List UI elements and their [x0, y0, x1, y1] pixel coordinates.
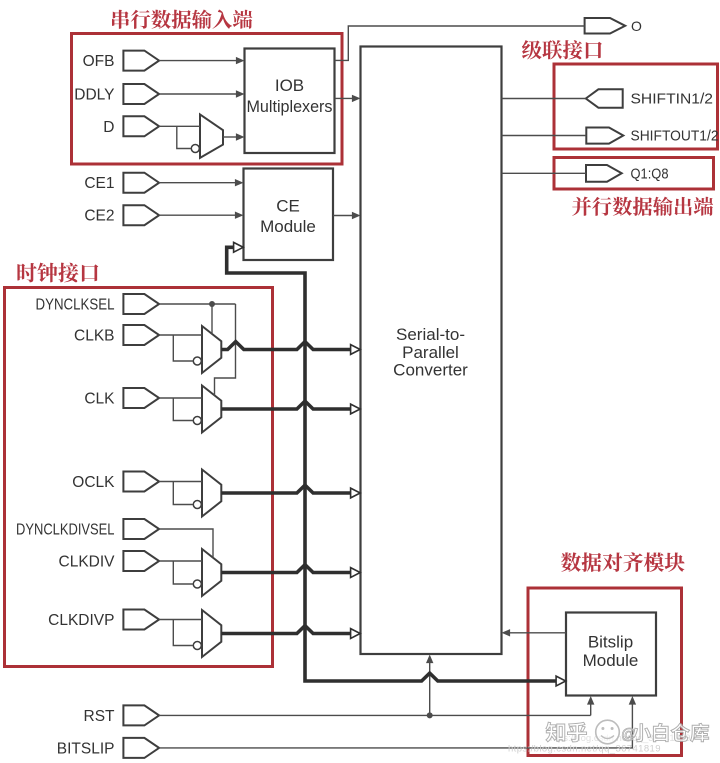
red annotation box: clock interface group [5, 288, 273, 667]
svg-text:OFB: OFB [83, 53, 115, 70]
svg-text:Module: Module [260, 217, 316, 236]
output port SHIFTOUT1/2 [586, 128, 718, 145]
wire DYNCLKSEL to mux M3 select [215, 304, 236, 396]
arrowhead CE output into converter [352, 212, 361, 219]
wire CLKB to mux M2 [159, 334, 202, 336]
arrowhead CE2 into CE Module [235, 212, 244, 219]
wire DDLY to IOB [159, 93, 237, 95]
mux M5 (CLKDIV) [202, 549, 221, 596]
red title: cascade interface [522, 40, 602, 59]
arrowhead trunk into CE Module [234, 242, 244, 252]
arrowhead RST into Bitslip bottom [587, 696, 594, 705]
wire CLKDIV inverted branch [173, 561, 193, 584]
wire CLKDIVP clock net (thick) [221, 626, 351, 634]
svg-text:RST: RST [84, 708, 116, 725]
svg-text:SHIFTIN1/2: SHIFTIN1/2 [631, 92, 714, 108]
inverter bubble on mux M4 (OCLK) [193, 501, 201, 509]
svg-text:CLK: CLK [84, 391, 115, 408]
wire OCLK clock net (thick) [221, 485, 351, 493]
input port BITSLIP [57, 738, 159, 758]
inverter bubble on mux M2 (CLKB) [193, 357, 201, 365]
arrowhead CLKB into converter [351, 345, 361, 355]
arrowhead CLKDIVP into converter [351, 629, 361, 639]
inverter bubble on mux M3 (CLK) [193, 417, 201, 425]
mux M6 (CLKDIVP) [202, 610, 221, 657]
svg-text:Module: Module [583, 651, 639, 670]
wire RST branch up to converter [429, 662, 431, 715]
watermark text zhihu [546, 722, 587, 742]
wire converter to SHIFTIN1/2 [502, 98, 586, 100]
inverter bubble on mux M1 [191, 145, 199, 153]
mux M3 (CLK) [202, 386, 221, 433]
wire CLKB clock net (thick) [221, 342, 351, 350]
svg-text:Bitslip: Bitslip [588, 633, 633, 652]
wire CE1 to CE Module [159, 182, 236, 184]
input port SHIFTIN1/2 (left-pointing) [586, 89, 713, 107]
svg-text:htps:/blog.csdn.net/qq_3674181: htps:/blog.csdn.net/qq_36741819 [508, 744, 661, 755]
block U1 Serial-to-Parallel Converter [361, 47, 502, 655]
arrowhead CLKDIV into converter [351, 568, 361, 578]
input port DYNCLKDIVSEL [16, 519, 159, 539]
arrowhead IOB output into converter [352, 95, 361, 102]
junction dot on DYNCLKSEL net [209, 301, 215, 307]
junction dot on RST net [427, 712, 433, 718]
output port Q1:Q8 [586, 165, 669, 182]
arrowhead BITSLIP into Bitslip bottom [629, 696, 636, 705]
wire DYNCLKSEL select net [159, 303, 236, 305]
svg-text:CLKDIVP: CLKDIVP [48, 612, 114, 629]
red title: data alignment module [561, 552, 685, 572]
wire converter to SHIFTOUT1/2 [502, 135, 587, 137]
mux M4 (OCLK) [202, 470, 221, 517]
wire CLKDIV to mux M5 [159, 560, 202, 562]
wire Bitslip Module to converter [509, 632, 566, 634]
arrowhead OFB into IOB [236, 57, 245, 64]
input port DDLY [74, 84, 159, 104]
block U4 Bitslip Module [566, 613, 656, 696]
input port OCLK [72, 472, 159, 492]
wire CLK to mux M3 [159, 397, 202, 399]
arrowhead trunk into Bitslip Module [556, 676, 566, 686]
input port RST [84, 705, 160, 725]
wire CLKDIVP to mux M6 [159, 619, 202, 621]
red title: clock interface [17, 263, 98, 283]
wire D to mux M1 [159, 125, 200, 127]
svg-text:Multiplexers: Multiplexers [247, 98, 333, 116]
wire RST net [159, 714, 591, 716]
block U3 CE Module [244, 169, 334, 261]
arrowhead CE1 into CE Module [235, 179, 244, 186]
svg-text:DYNCLKDIVSEL: DYNCLKDIVSEL [16, 522, 115, 539]
red annotation box: data alignment group [528, 588, 682, 756]
input port CE2 [84, 205, 159, 225]
input port CLKB [74, 325, 159, 345]
svg-text:CE1: CE1 [84, 175, 114, 192]
red annotation box: serial data input group [72, 34, 343, 165]
input port CLKDIVP [48, 610, 159, 630]
wire BITSLIP net [159, 704, 633, 748]
svg-text:CLKDIV: CLKDIV [59, 554, 116, 571]
inverter bubble on mux M5 (CLKDIV) [193, 580, 201, 588]
svg-text:DYNCLKSEL: DYNCLKSEL [36, 297, 115, 314]
svg-text:Q1:Q8: Q1:Q8 [631, 166, 669, 182]
arrowhead mux M1 into IOB [236, 133, 245, 140]
wire CLKB inverted branch [173, 335, 193, 361]
wire CLK inverted branch [173, 398, 193, 421]
wire OCLK to mux M4 [159, 481, 202, 483]
svg-text:SHIFTOUT1/2: SHIFTOUT1/2 [631, 129, 719, 145]
wire DYNCLKDIVSEL to mux M5 select [159, 529, 213, 558]
svg-text:Serial-to-: Serial-to- [396, 325, 465, 344]
watermark avatar logo [596, 720, 620, 744]
watermark text account name [632, 723, 709, 741]
wire CE Module output to converter [333, 215, 353, 217]
svg-text:OCLK: OCLK [72, 474, 115, 491]
mux M1 (D input) [200, 114, 223, 157]
wire CLKDIVP inverted branch [173, 620, 193, 646]
wire CE2 to CE Module [159, 214, 236, 216]
red title: parallel data output port [572, 197, 713, 216]
input port OFB [83, 51, 159, 71]
svg-text:Converter: Converter [393, 361, 468, 380]
svg-text:Parallel: Parallel [402, 343, 459, 362]
arrowhead Bitslip into converter [502, 629, 511, 636]
arrowhead OCLK into converter [351, 488, 361, 498]
inverter bubble on mux M6 (CLKDIVP) [193, 642, 201, 650]
wire CLKDIV clock net (thick) [221, 565, 351, 573]
input port D [103, 116, 159, 136]
svg-text:CE: CE [276, 197, 300, 216]
input port DYNCLKSEL [36, 294, 160, 314]
red annotation box: parallel data output group [554, 158, 714, 190]
red title: serial data input port [112, 10, 252, 29]
arrowhead RST into converter bottom [426, 655, 433, 664]
svg-text:O: O [631, 18, 642, 34]
svg-text:IOB: IOB [275, 76, 304, 95]
wire OFB to IOB [159, 60, 237, 62]
svg-text:DDLY: DDLY [74, 87, 114, 104]
wire OCLK inverted branch [173, 482, 193, 505]
svg-text:CE2: CE2 [84, 208, 114, 225]
output port O [585, 18, 642, 34]
wire CLKDIV distribution trunk to CE and Bitslip (thick) [227, 247, 556, 681]
arrowhead CLK into converter [351, 404, 361, 414]
svg-text:D: D [103, 119, 114, 136]
wire CLK clock net (thick) [221, 401, 351, 409]
block U2 IOB Multiplexers [245, 49, 335, 154]
input port CE1 [84, 173, 159, 193]
wire converter to Q1:Q8 [502, 172, 587, 174]
svg-text:BITSLIP: BITSLIP [57, 740, 115, 757]
wire D inverted branch [177, 126, 192, 148]
wire RST branch up to Bitslip Module [590, 704, 592, 716]
svg-text:CLKB: CLKB [74, 328, 115, 345]
input port CLKDIV [59, 551, 160, 571]
arrowhead DDLY into IOB [236, 90, 245, 97]
wire mux M1 output to IOB [223, 136, 237, 138]
red annotation box: cascade interface group [554, 64, 718, 149]
wire DYNCLKSEL to mux M2 select [211, 304, 213, 334]
wire IOB to O output [335, 26, 585, 60]
input port CLK [84, 388, 159, 408]
mux M2 (CLKB) [202, 326, 221, 373]
wire IOB output to converter [335, 97, 354, 99]
